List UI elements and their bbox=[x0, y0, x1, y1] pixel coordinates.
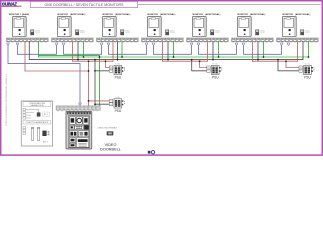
wire black stub M5 bbox=[212, 42, 214, 60]
monitor M7 terminal labels bbox=[278, 41, 317, 44]
PSU PS4 connector bbox=[109, 99, 112, 105]
doorbell lock release module bbox=[107, 132, 113, 136]
node green junction M2 bbox=[83, 56, 85, 58]
wire blue M1 to doorbell bbox=[8, 46, 80, 103]
monitor M4 blue plug right bbox=[152, 43, 154, 45]
monitor M1 label bbox=[9, 13, 30, 16]
svg-text:MONITOR (ADDITIONAL): MONITOR (ADDITIONAL) bbox=[193, 13, 221, 16]
wire red bus middle bbox=[163, 60, 208, 62]
wire black stub M1 bbox=[28, 42, 30, 60]
PSU PS2 label F-03a bbox=[213, 64, 218, 66]
PSU PS1 connector bbox=[109, 66, 112, 72]
wire red stub M3 bbox=[112, 42, 114, 61]
node red junction PSU2 bbox=[199, 60, 201, 62]
node black junction PSU4 bbox=[94, 103, 96, 105]
monitor M5 label bbox=[193, 13, 221, 16]
wire blue hop M5-M6 bbox=[199, 46, 237, 55]
svg-text:MONITOR (ADDITIONAL): MONITOR (ADDITIONAL) bbox=[58, 13, 86, 16]
header rule bbox=[138, 3, 321, 5]
PSU PS4 label F-03a bbox=[115, 97, 120, 99]
node black junction M3 bbox=[117, 59, 119, 61]
PSU PS3 label F-03a bbox=[305, 64, 310, 66]
video doorbell label bbox=[100, 143, 121, 152]
monitor M6 hook module bbox=[256, 30, 266, 35]
node black junction PSU1 bbox=[94, 70, 96, 72]
PSU PS2 output pins bbox=[219, 67, 222, 72]
wire black feed PSU4 bbox=[95, 103, 110, 105]
wire black bus bbox=[29, 59, 303, 61]
video doorbell speaker grille bbox=[69, 138, 88, 148]
monitor M4 body bbox=[147, 17, 161, 37]
wire red feed PSU1 bbox=[106, 61, 110, 67]
monitor M3 body bbox=[102, 17, 116, 37]
monitor M6 label bbox=[238, 13, 266, 16]
wire green bus A bbox=[39, 56, 309, 58]
monitor M2 blue plug left bbox=[55, 43, 57, 45]
monitor M4 blue plug left bbox=[145, 43, 147, 45]
monitor M6 blue plug right bbox=[242, 43, 244, 45]
wire red stub M5 bbox=[207, 42, 209, 61]
monitor M7 terminal strip bbox=[276, 38, 318, 42]
monitor M2 hook module bbox=[76, 30, 86, 35]
node red junction PSU1 bbox=[105, 60, 107, 62]
video doorbell mid modules bbox=[69, 125, 88, 129]
monitor M2 terminal strip bbox=[51, 38, 93, 42]
wire black stub M2 bbox=[77, 42, 79, 60]
PSU PS4 label bbox=[115, 109, 122, 113]
monitor M3 blue plug right bbox=[107, 43, 109, 45]
svg-text:MONITOR (ADDITIONAL): MONITOR (ADDITIONAL) bbox=[148, 13, 176, 16]
legend box bbox=[21, 101, 53, 146]
video doorbell body bbox=[66, 112, 92, 150]
GUINAZ logo bbox=[2, 1, 22, 6]
PSU PS3 output pins bbox=[312, 67, 315, 72]
node red junction PSU4 bbox=[88, 100, 90, 102]
wire black feed PSU3 bbox=[278, 60, 299, 71]
wire blue hop M2-M3 bbox=[64, 46, 102, 55]
page mark bbox=[148, 151, 155, 154]
svg-text:ART. 2: ART. 2 bbox=[43, 140, 48, 143]
svg-text:CONECTOR ALIMENTACION: CONECTOR ALIMENTACION bbox=[26, 121, 49, 124]
svg-text:MONITOR 1 (MAIN): MONITOR 1 (MAIN) bbox=[9, 13, 30, 16]
monitor M7 label bbox=[283, 13, 311, 16]
monitor M4 label bbox=[148, 13, 176, 16]
wire red stub M7 bbox=[297, 42, 299, 61]
wire red feed PSU3 bbox=[286, 61, 299, 67]
monitor M1 blue plug left bbox=[7, 43, 9, 45]
PSU PS2 label bbox=[212, 76, 219, 80]
svg-text:ONE DOORBELL / SEVEN TACTILE M: ONE DOORBELL / SEVEN TACTILE MONITORS bbox=[45, 3, 125, 7]
wire blue hop M3-M4 bbox=[109, 46, 147, 55]
PSU PS4 output pins bbox=[122, 100, 125, 105]
node green junction M3 bbox=[121, 56, 123, 58]
PSU PS3 connector bbox=[299, 66, 302, 72]
video doorbell terminal strip bbox=[56, 106, 101, 110]
svg-text:PSU: PSU bbox=[304, 76, 311, 80]
node green junction M7 bbox=[308, 56, 310, 58]
page border frame bbox=[1, 1, 323, 155]
monitor M2 terminal labels bbox=[53, 41, 92, 44]
video doorbell button panel bbox=[69, 131, 88, 137]
wire green stub M4 bbox=[173, 42, 175, 57]
legend section 2 schematic bbox=[23, 127, 49, 144]
wire blue hop M4-M5 bbox=[154, 46, 192, 55]
PSU PS1 label F-03a bbox=[115, 64, 120, 66]
node green junction M6 bbox=[263, 56, 265, 58]
monitor M3 label bbox=[103, 13, 131, 16]
PSU PS3 label bbox=[304, 76, 311, 80]
monitor M5 blue plug left bbox=[190, 43, 192, 45]
wire red bus left bbox=[73, 60, 114, 62]
wire black stub M4 bbox=[167, 42, 169, 60]
node black junction M5 bbox=[212, 59, 214, 61]
legend section 1 schematic bbox=[0, 0, 50, 119]
legend section 2 header bbox=[23, 121, 51, 125]
monitor M7 hook module bbox=[301, 30, 311, 35]
PSU PS1 output pins bbox=[122, 67, 125, 72]
wire red feed PSU2 bbox=[200, 61, 208, 67]
wire green stub M3 bbox=[121, 42, 123, 57]
monitor M5 terminal strip bbox=[186, 38, 228, 42]
wire black stub M3 bbox=[117, 42, 119, 60]
wire red stub M6 bbox=[252, 42, 254, 61]
monitor M7 body bbox=[282, 17, 296, 37]
wire black stub M6 bbox=[257, 42, 259, 60]
wire green bus B bbox=[39, 54, 100, 56]
monitor M4 hook module bbox=[166, 30, 176, 35]
monitor M1 hook module bbox=[31, 30, 41, 35]
monitor M5 terminal labels bbox=[188, 41, 227, 44]
node red junction PSU3 bbox=[285, 60, 287, 62]
node green junction doorbell bbox=[99, 56, 101, 58]
monitor M5 hook module bbox=[211, 30, 221, 35]
PSU PS1 label bbox=[115, 76, 122, 80]
svg-text:VIA ANALOGICA: VIA ANALOGICA bbox=[31, 104, 45, 107]
wire black feed PSU1 bbox=[95, 70, 110, 72]
monitor M3 hook module bbox=[121, 30, 131, 35]
wire red feed PSU4 bbox=[89, 100, 110, 102]
node red junction bus/doorbell bbox=[88, 60, 90, 71]
node black junction PSU3 bbox=[277, 59, 279, 61]
PSU PS4 box bbox=[114, 99, 122, 108]
page background bbox=[0, 0, 323, 156]
svg-text:MONITOR (ADDITIONAL): MONITOR (ADDITIONAL) bbox=[238, 13, 266, 16]
wire green drop to doorbell bbox=[99, 55, 101, 105]
PSU PS3 box bbox=[304, 65, 312, 74]
monitor M5 blue plug right bbox=[197, 43, 199, 45]
monitor M7 blue plug right bbox=[287, 43, 289, 45]
monitor M1 blue plug right bbox=[16, 43, 18, 45]
wire red M1 low run bbox=[25, 70, 89, 72]
doorbell side caption bbox=[97, 127, 117, 130]
svg-text:TODOS LOS IMPRESOS PROPIEDAD D: TODOS LOS IMPRESOS PROPIEDAD DE GUINAZ S… bbox=[5, 73, 8, 126]
PSU PS2 box bbox=[211, 65, 219, 74]
svg-text:GUINAZ: GUINAZ bbox=[2, 1, 17, 6]
wire black feed PSU2 bbox=[192, 60, 207, 71]
monitor M6 terminal strip bbox=[231, 38, 273, 42]
wire red drop to doorbell bbox=[88, 61, 90, 106]
wire red bus right bbox=[253, 60, 298, 62]
wire green stub M7 bbox=[308, 42, 310, 57]
monitor M2 label bbox=[58, 13, 86, 16]
doorbell blue plug bbox=[79, 103, 81, 105]
wire blue hop M1-M2 bbox=[18, 46, 57, 55]
monitor M4 terminal strip bbox=[141, 38, 183, 42]
node black junction M6 bbox=[257, 59, 259, 61]
monitor M5 body bbox=[192, 17, 206, 37]
svg-text:MONITOR (ADDITIONAL): MONITOR (ADDITIONAL) bbox=[283, 13, 311, 16]
svg-text:BT–1: BT–1 bbox=[44, 114, 48, 116]
monitor M2 blue plug right bbox=[62, 43, 64, 45]
monitor M3 terminal strip bbox=[96, 38, 138, 42]
monitor M6 terminal labels bbox=[233, 41, 272, 44]
svg-text:MONITOR (ADDITIONAL): MONITOR (ADDITIONAL) bbox=[103, 13, 131, 16]
node black junction M4 bbox=[167, 59, 169, 61]
wire black stub M7 bbox=[302, 42, 304, 60]
monitor M3 terminal labels bbox=[98, 41, 137, 44]
title box bbox=[30, 1, 138, 7]
wire green stub M1 bbox=[38, 42, 40, 57]
wire red stub M1 bbox=[24, 42, 26, 71]
PSU PS1 box bbox=[114, 65, 122, 74]
node black junction M2 bbox=[77, 59, 79, 61]
svg-text:VIDEO: VIDEO bbox=[105, 143, 117, 147]
wire green stub M2 bbox=[83, 42, 85, 57]
wire green stub M5 bbox=[218, 42, 220, 57]
video doorbell terminal labels bbox=[57, 110, 99, 113]
monitor M1 terminal labels bbox=[8, 41, 47, 44]
node black junction doorbell bbox=[94, 59, 96, 61]
monitor M6 blue plug left bbox=[235, 43, 237, 45]
monitor M3 blue plug left bbox=[100, 43, 102, 45]
wire red stub M2 bbox=[72, 42, 74, 61]
video doorbell camera module bbox=[69, 117, 88, 124]
node green junction M5 bbox=[218, 56, 220, 58]
monitor M1 body bbox=[12, 17, 26, 37]
monitor M2 body bbox=[57, 17, 71, 37]
side caption bbox=[5, 73, 8, 126]
svg-text:DOORBELL: DOORBELL bbox=[100, 147, 121, 151]
monitor M1 terminal strip bbox=[6, 38, 48, 42]
wire red stub M4 bbox=[162, 42, 164, 61]
svg-text:PSU: PSU bbox=[212, 76, 219, 80]
PSU PS2 connector bbox=[207, 66, 210, 72]
wire green stub M6 bbox=[263, 42, 265, 57]
node green junction M4 bbox=[173, 56, 175, 58]
node black junction PSU2 bbox=[191, 59, 193, 61]
svg-text:PSU: PSU bbox=[115, 109, 122, 113]
svg-text:PSU: PSU bbox=[115, 76, 122, 80]
monitor M7 blue plug left bbox=[280, 43, 282, 45]
monitor M6 body bbox=[237, 17, 251, 37]
monitor M4 terminal labels bbox=[143, 41, 182, 44]
wire black drop to doorbell bbox=[94, 60, 96, 106]
wire blue hop M6-M7 bbox=[244, 46, 282, 55]
